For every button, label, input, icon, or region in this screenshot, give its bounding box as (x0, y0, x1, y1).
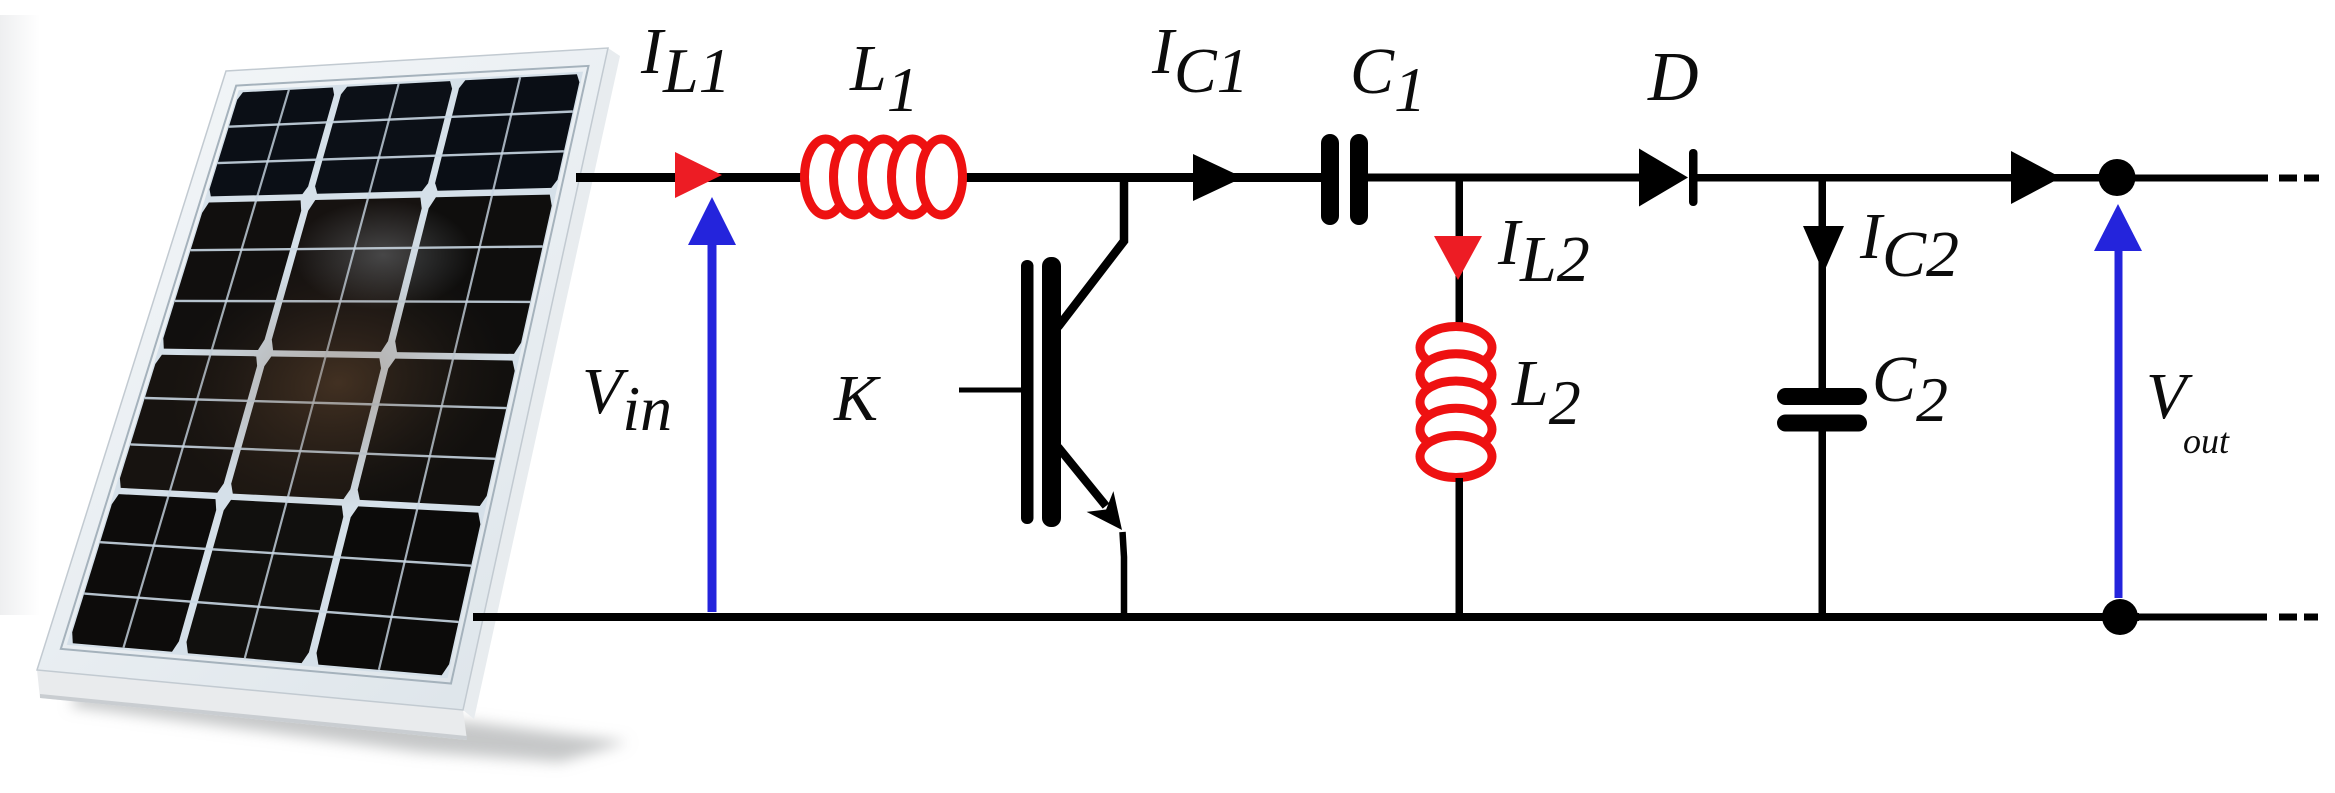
C2 branch wire upper (1819, 177, 1827, 390)
label V_out (2146, 359, 2186, 435)
label I_L1 (641, 14, 731, 90)
label C_2 (1872, 342, 1948, 418)
gate bar (1021, 260, 1034, 524)
label I_L2 (1498, 205, 1590, 281)
label D (1648, 38, 1699, 118)
panel drop shadow (70, 690, 628, 762)
frame inner lip (61, 66, 589, 684)
collector path (1058, 177, 1124, 327)
panel bottom side face (37, 670, 467, 740)
cell busbar thin lines (229, 112, 573, 127)
label C_1 (1350, 34, 1426, 110)
inductor L1 (805, 139, 963, 215)
node dot bottom (2102, 599, 2138, 635)
arrow to output node (2011, 151, 2061, 204)
black arrow I_C2 (1803, 226, 1844, 273)
top wire (576, 173, 1321, 182)
label V_in (582, 354, 672, 430)
red arrow I_L2 (1434, 236, 1482, 280)
inductor L2 (1420, 327, 1492, 478)
label L_2 (1512, 346, 1581, 422)
gate lead (959, 388, 1027, 393)
blue arrow V_out (2094, 204, 2142, 598)
panel frame (top face) (37, 48, 608, 710)
emitter path (1058, 447, 1106, 506)
panel sheen (146, 225, 531, 540)
arrow I_C1 (1193, 154, 1243, 201)
label I_C1 (1152, 14, 1249, 90)
bottom wire dashes (2138, 614, 2267, 621)
photo background band (0, 15, 40, 615)
main bar (1042, 257, 1061, 527)
solar cells grid (210, 88, 335, 197)
node L2 branch wire upper (1456, 177, 1464, 333)
label I_C2 (1860, 199, 1959, 275)
diode D (1639, 149, 1688, 207)
label L1 (850, 31, 919, 107)
red arrow I_L1 (675, 152, 722, 198)
node dot top (2099, 159, 2136, 196)
solar panel cell field (67, 72, 583, 679)
label K (834, 361, 878, 437)
C2 branch wire lower (1819, 430, 1827, 617)
bottom wire (473, 613, 2139, 621)
L2 branch wire lower (1456, 478, 1464, 617)
top wire dashes (2134, 175, 2268, 182)
capacitor C1 (1321, 134, 1339, 225)
blue arrow V_in (688, 197, 736, 612)
capacitor C2 (1777, 388, 1867, 405)
transistor K (IGBT) (959, 177, 1124, 618)
panel right side face (463, 48, 620, 719)
